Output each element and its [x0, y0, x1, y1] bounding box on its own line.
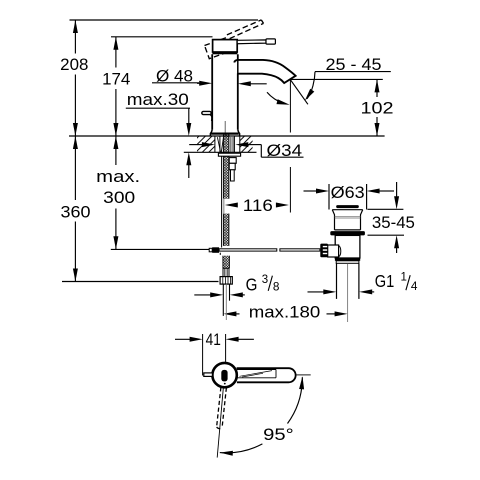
dimension max.300 — [96, 136, 211, 249]
plan view: 0deg reference line — [296, 374, 311, 376]
deck cross-section hatch — [184, 136, 257, 152]
svg-text:35-45: 35-45 — [372, 213, 415, 232]
plan view: faucet body circle — [212, 363, 236, 387]
svg-text:max.30: max.30 — [127, 90, 189, 109]
extension line handle-top ref — [111, 36, 213, 38]
pop-up rod clamp joint — [209, 247, 219, 253]
dashed handle (open position) — [205, 20, 264, 59]
drain pull knob — [202, 111, 212, 121]
dimension G1 1/4 (waste thread) — [308, 271, 418, 294]
lever handle (side view) — [237, 39, 275, 44]
dimension G 3/8 (supply thread) — [194, 274, 280, 297]
svg-text:95°: 95° — [263, 425, 294, 444]
waste body — [335, 235, 360, 258]
handle cartridge — [212, 40, 237, 55]
outlet vertical extension line — [289, 80, 291, 213]
hose lower section — [223, 256, 230, 269]
svg-text:208: 208 — [60, 55, 88, 74]
supply connection nut G3/8 — [220, 277, 232, 285]
dimension diameter 48 — [152, 66, 267, 86]
flexible supply hose (braided) — [223, 135, 231, 246]
svg-text:max.: max. — [96, 167, 140, 186]
dimension diameter 34 (hole) — [189, 141, 303, 160]
dimension max.30 (deck thickness) — [126, 90, 192, 178]
plan view: dashed lever (swung) — [217, 387, 227, 428]
svg-text:300: 300 — [103, 188, 135, 207]
dimension 208 — [60, 20, 88, 136]
svg-text:360: 360 — [61, 202, 91, 221]
dimension max.180 — [223, 303, 347, 322]
outlet diagonal slash — [290, 80, 308, 105]
plan view: lever (top) — [237, 368, 296, 382]
hose ribbed connector — [223, 268, 229, 276]
dimension 102 — [361, 79, 394, 136]
dimension 174 — [102, 37, 130, 136]
extension line top (overall height ref) — [70, 19, 259, 21]
pop-up rod (vertical) — [220, 152, 221, 255]
svg-text:102: 102 — [361, 99, 394, 118]
dimension 116 — [225, 196, 289, 215]
dimension 35-45 (waste height) — [368, 182, 415, 253]
svg-text:174: 174 — [102, 69, 130, 88]
waste lever port — [328, 245, 341, 257]
water flow arc arrow — [267, 92, 290, 107]
spout — [234, 60, 295, 83]
horizontal pop-up rod — [219, 249, 320, 251]
plan view: dimension 41 — [175, 330, 254, 376]
plan view: spout nub — [204, 373, 213, 377]
faucet body — [210, 54, 239, 136]
spout outlet level extension line — [291, 78, 383, 80]
waste coupling nut — [335, 258, 360, 263]
svg-text:Ø63: Ø63 — [331, 183, 365, 202]
mounting washer — [218, 153, 240, 156]
svg-text:8: 8 — [273, 280, 280, 294]
svg-text:G1: G1 — [375, 271, 395, 291]
body edge behind spout — [237, 59, 239, 75]
svg-text:max.180: max.180 — [249, 303, 321, 322]
waste upper body — [332, 210, 363, 230]
mounting nut and stud — [229, 158, 236, 181]
svg-text:Ø34: Ø34 — [267, 141, 303, 160]
shank through deck — [217, 136, 234, 152]
dimension 95 degrees arc — [220, 376, 305, 456]
waste plug cap — [336, 205, 359, 208]
plan view: lever centerline 95deg — [217, 387, 223, 458]
dimension 25 - 45 (spout reach leader) — [303, 55, 391, 102]
supply pipe end — [223, 284, 229, 320]
dimension diameter 63 (waste flange) — [304, 183, 395, 209]
waste tailpipe — [337, 263, 359, 322]
countertop deck line — [69, 135, 385, 137]
svg-text:116: 116 — [243, 196, 273, 215]
svg-text:3: 3 — [262, 274, 268, 286]
waste flange — [330, 231, 365, 235]
dimension 360 — [61, 136, 219, 282]
waste knurled knob — [320, 244, 328, 258]
svg-text:41: 41 — [206, 330, 221, 349]
svg-text:1: 1 — [401, 271, 407, 283]
svg-text:G: G — [246, 274, 258, 294]
svg-text:4: 4 — [411, 279, 418, 293]
